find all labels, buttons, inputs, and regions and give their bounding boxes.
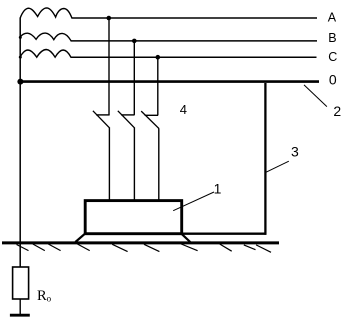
ground hatch 1 [17,245,29,251]
svg-text:4: 4 [180,102,187,117]
svg-text:0: 0 [329,72,337,88]
svg-text:3: 3 [291,143,299,159]
wire phase line B [71,40,318,42]
ground surface line [2,241,279,244]
leader line for label 2 [304,85,327,107]
wire neutral/earthing conductor (left vertical) [19,18,21,268]
svg-text:Ro: Ro [37,288,52,304]
resistor R0 body [13,267,29,299]
ground hatch 2 [33,244,45,251]
wire switch 2 to equipment [133,128,135,201]
switch SA2 fixed contact bar [121,114,134,116]
switch SA2 blade [118,111,135,128]
wire drop from A to switch 1 [108,18,110,115]
svg-text:1: 1 [214,180,222,196]
node star point junction dot [17,79,23,85]
node winding B tap dot [19,36,22,39]
node winding C tap dot [19,56,22,59]
ground hatch 7 [181,244,197,251]
winding T1 phase B [20,33,71,41]
wire switch 3 to equipment [158,128,160,201]
switch SA1 fixed contact bar [96,114,109,116]
earth electrode bar [10,314,30,317]
leader line for label 3 [265,161,289,172]
ground hatch 6 [144,244,159,251]
wire switch 1 to equipment [108,128,110,201]
equipment right foot [181,233,190,242]
svg-text:2: 2 [333,103,341,119]
ground hatch 3 [48,244,60,251]
wire PE bonding conductor horizontal (3) [182,232,266,234]
node tap C junction dot [156,55,161,60]
wire drop from C to switch 3 [157,57,159,115]
ground hatch 4 [77,244,89,251]
svg-text:B: B [328,31,336,45]
wire neutral bus 0 [20,80,319,83]
switch SA3 blade [141,111,159,128]
ground hatch 9 [244,245,256,250]
leader line for label 1 [173,192,214,211]
wire drop from B to switch 2 [133,41,135,115]
switch SA1 blade [93,111,110,128]
node tap B junction dot [132,39,137,44]
node tap A junction dot [107,16,112,21]
equipment left foot [75,233,85,242]
wire phase line A [72,17,318,19]
wire PE bonding conductor vertical to bus 0 [264,83,266,235]
switch SA3 fixed contact bar [145,114,158,116]
winding T1 phase A [20,8,72,18]
equipment enclosure 1 [85,201,182,234]
ground hatch 5 [112,244,127,251]
svg-text:A: A [328,11,337,25]
wire resistor to earth electrode [19,299,21,316]
winding T1 phase C [20,50,71,58]
ground hatch 8 [220,244,232,251]
wire phase line C [71,56,317,58]
ground hatch 10 [256,245,271,252]
svg-text:C: C [328,50,337,64]
